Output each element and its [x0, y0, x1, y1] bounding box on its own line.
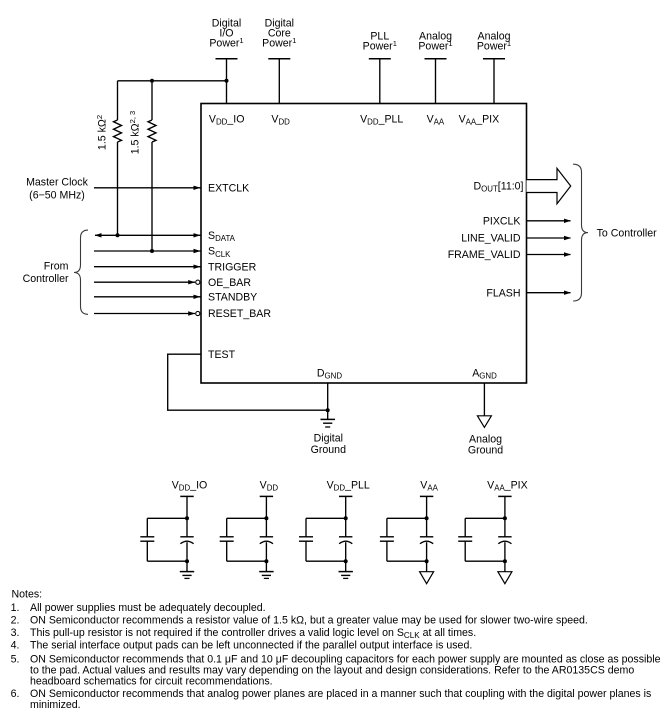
capacitor 10uF polarized VDD_PLL: [339, 537, 352, 544]
wire VAA ceramic branch: [387, 518, 427, 561]
svg-text:Analog: Analog: [469, 433, 502, 445]
svg-text:TEST: TEST: [208, 349, 236, 361]
svg-text:The serial interface output pa: The serial interface output pads can be …: [30, 639, 472, 651]
capacitor 10uF polarized VDD_IO: [180, 537, 193, 544]
svg-text:FRAME_VALID: FRAME_VALID: [448, 249, 521, 261]
ground analog ground under VAA: [420, 561, 434, 584]
capacitor 0.1uF ceramic VDD_PLL: [299, 537, 313, 541]
svg-text:Power1: Power1: [418, 39, 452, 53]
junction node R2 top on rail: [150, 79, 154, 83]
junction node rail to VDD_IO pin: [225, 79, 229, 83]
junction node VDD_PLL top: [344, 516, 348, 520]
power pin VDD_PLL supply stub: [369, 59, 391, 104]
junction node R2 to SCLK: [150, 249, 154, 253]
svg-text:VDD_PLL: VDD_PLL: [327, 479, 370, 492]
svg-text:TRIGGER: TRIGGER: [208, 261, 257, 273]
label VDD_IO power name: [209, 17, 243, 49]
wire VDD ceramic branch: [227, 518, 267, 561]
svg-text:5.: 5.: [11, 653, 20, 665]
svg-text:ON Semiconductor recommends th: ON Semiconductor recommends that 0.1 μF …: [30, 653, 661, 665]
note 3 text: [11, 627, 477, 640]
wire TRIGGER: [94, 265, 201, 269]
svg-text:Digital: Digital: [314, 433, 343, 445]
svg-text:VDD_IO: VDD_IO: [172, 479, 208, 492]
junction node VDD_PLL bottom: [344, 559, 348, 563]
svg-text:minimized.: minimized.: [30, 699, 81, 711]
svg-text:VDD_PLL: VDD_PLL: [360, 113, 403, 126]
wire VAA bulk branch: [426, 518, 428, 561]
svg-text:STANDBY: STANDBY: [208, 291, 257, 303]
brace To Controller group: [573, 164, 588, 301]
capacitor 0.1uF ceramic VAA: [380, 537, 394, 541]
junction node VDD_IO bottom: [185, 559, 189, 563]
svg-text:DOUT[11:0]: DOUT[11:0]: [473, 181, 523, 194]
wire VDD_PLL ceramic branch: [306, 518, 346, 561]
svg-text:ON Semiconductor recommends th: ON Semiconductor recommends that analog …: [30, 688, 651, 700]
svg-text:4.: 4.: [11, 639, 20, 651]
power pin VDD_PLL rail stub: [339, 496, 352, 518]
junction node VAA bottom: [425, 559, 429, 563]
svg-text:6.: 6.: [11, 688, 20, 700]
svg-text:1.: 1.: [11, 602, 20, 614]
svg-text:Ground: Ground: [311, 444, 346, 456]
wire SDATA bidirectional: [95, 233, 201, 237]
svg-text:LINE_VALID: LINE_VALID: [461, 233, 521, 245]
svg-text:VDD_IO: VDD_IO: [209, 113, 245, 126]
wire TEST to digital ground: [168, 354, 328, 410]
note 6 text: [11, 688, 652, 711]
wire DGND pin to ground: [327, 383, 329, 419]
note 5 text: [11, 653, 661, 687]
note 2 text: [11, 614, 588, 626]
label VDD_PLL power name: [363, 30, 397, 52]
svg-text:ON Semiconductor recommends a: ON Semiconductor recommends a resistor v…: [30, 614, 588, 626]
svg-text:1.5 kΩ2: 1.5 kΩ2: [95, 115, 109, 150]
svg-text:OE_BAR: OE_BAR: [208, 277, 251, 289]
power pin VDD_IO supply stub: [216, 59, 238, 104]
wire EXTCLK input with arrow: [94, 186, 201, 190]
capacitor 0.1uF ceramic VAA_PIX: [458, 537, 472, 541]
svg-text:headboard schematics for circu: headboard schematics for circuit recomme…: [30, 676, 273, 688]
label VAA power name: [418, 30, 452, 52]
capacitor 10uF polarized VAA: [420, 537, 433, 544]
junction node TEST joins DGND: [326, 408, 330, 412]
label Digital Ground: [311, 433, 346, 457]
svg-text:to the pad. Actual values and: to the pad. Actual values and results ma…: [30, 665, 634, 677]
junction node VDD_IO top: [185, 516, 189, 520]
capacitor 0.1uF ceramic VDD: [220, 537, 234, 541]
svg-text:All power supplies must be ade: All power supplies must be adequately de…: [30, 602, 266, 614]
resistor R1 1.5k pull-up on SDATA: [114, 81, 122, 236]
wire VAA_PIX bulk branch: [504, 518, 506, 561]
junction node VDD bottom: [264, 559, 268, 563]
power pin VAA_PIX supply stub: [483, 59, 505, 104]
chip U1 AR0135CS sensor body: [201, 104, 527, 384]
ground digital ground symbol: [321, 419, 336, 427]
label VAA_PIX power name: [477, 30, 511, 52]
capacitor 10uF polarized VDD: [260, 537, 273, 544]
wire RESET_BAR with inverting bubble: [94, 311, 200, 315]
svg-text:Power1: Power1: [363, 39, 397, 53]
brace From Controller group: [74, 230, 88, 314]
svg-text:EXTCLK: EXTCLK: [208, 183, 249, 195]
wire SCLK: [94, 249, 201, 253]
power pin VDD_IO rail stub: [180, 496, 193, 518]
junction node VDD top: [264, 516, 268, 520]
junction node VAA top: [425, 516, 429, 520]
wire LINE_VALID output with arrow: [527, 236, 572, 240]
capacitor 0.1uF ceramic VDD_IO: [140, 537, 154, 541]
ground digital ground under VDD_PLL: [339, 561, 353, 578]
power pin VAA rail stub: [420, 496, 433, 518]
wire FRAME_VALID output with arrow: [527, 252, 572, 256]
wire VAA_PIX ceramic branch: [465, 518, 505, 561]
capacitor 10uF polarized VAA_PIX: [498, 537, 511, 544]
svg-text:(6−50 MHz): (6−50 MHz): [29, 189, 85, 201]
wire pull-up rail from R1/R2 tops to VDD_IO pin: [118, 80, 227, 82]
svg-text:From: From: [44, 260, 69, 272]
label Master Clock source: [26, 177, 89, 202]
ground digital ground under VDD_IO: [180, 561, 194, 578]
wire VDD_IO ceramic branch: [147, 518, 187, 561]
wire VDD_PLL bulk branch: [345, 518, 347, 561]
label From Controller: [23, 260, 69, 285]
svg-text:PIXCLK: PIXCLK: [483, 215, 521, 227]
bus arrow DOUT output: [527, 168, 571, 203]
power pin VDD supply stub: [268, 59, 290, 104]
label Analog Ground: [468, 433, 503, 456]
svg-text:Power1: Power1: [209, 36, 243, 50]
svg-text:3.: 3.: [11, 627, 20, 639]
svg-text:VAA_PIX: VAA_PIX: [487, 479, 528, 492]
power pin VDD rail stub: [260, 496, 273, 518]
note 1 text: [11, 602, 266, 614]
ground analog ground under VAA_PIX: [498, 561, 512, 584]
wire STANDBY: [94, 295, 201, 299]
wire VDD bulk branch: [265, 518, 267, 561]
power pin VAA supply stub: [425, 59, 447, 104]
svg-text:Master Clock: Master Clock: [26, 177, 89, 189]
ground analog ground symbol triangle: [477, 416, 491, 428]
wire FLASH output with arrow: [527, 291, 572, 295]
wire OE_BAR with inverting bubble: [94, 280, 200, 284]
resistor R2 1.5k pull-up on SCLK: [148, 81, 156, 251]
junction node VAA_PIX top: [503, 516, 507, 520]
junction node VAA_PIX bottom: [503, 559, 507, 563]
power pin VAA_PIX rail stub: [498, 496, 511, 518]
wire PIXCLK output with arrow: [527, 219, 572, 223]
svg-text:Power1: Power1: [262, 36, 296, 50]
ground digital ground under VDD: [259, 561, 273, 578]
note 4 text: [11, 639, 473, 651]
wire VDD_IO bulk branch: [186, 518, 188, 561]
svg-text:VAA_PIX: VAA_PIX: [459, 113, 500, 126]
svg-text:To Controller: To Controller: [597, 228, 658, 240]
svg-text:RESET_BAR: RESET_BAR: [208, 308, 271, 320]
svg-text:FLASH: FLASH: [486, 287, 520, 299]
junction node R1 to SDATA: [116, 233, 120, 237]
svg-text:2.: 2.: [11, 614, 20, 626]
svg-text:Notes:: Notes:: [12, 588, 43, 600]
svg-text:Ground: Ground: [468, 445, 503, 457]
svg-text:Controller: Controller: [23, 273, 69, 285]
wire AGND pin to ground: [483, 383, 485, 416]
svg-text:Power1: Power1: [477, 39, 511, 53]
label VDD power name: [262, 17, 296, 49]
